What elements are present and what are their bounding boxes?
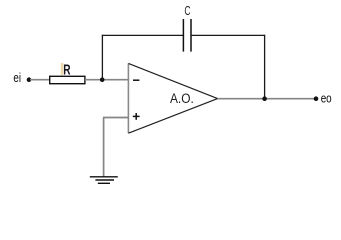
node eo terminal dot — [314, 96, 319, 101]
wire feedback left vertical segment — [101, 35, 103, 80]
wire ei to resistor R — [30, 79, 50, 81]
svg-text:eo: eo — [321, 91, 332, 106]
capacitor C plates — [183, 19, 191, 52]
ground symbol — [90, 177, 118, 184]
svg-text:A.O.: A.O. — [170, 91, 194, 106]
resistor R body — [50, 76, 85, 83]
op-amp U1 triangle — [128, 63, 217, 133]
svg-text:R: R — [63, 62, 70, 79]
wire feedback top right horizontal from capacitor — [191, 34, 265, 36]
wire resistor R to inverting input — [85, 79, 128, 81]
svg-text:C: C — [184, 4, 190, 18]
svg-text:ei: ei — [13, 71, 21, 85]
op-amp non-inverting input plus sign — [133, 113, 140, 120]
wire feedback right vertical down to output — [264, 35, 266, 99]
wire non-inverting input horizontal — [103, 117, 128, 119]
highlight bar beside R label — [61, 63, 64, 75]
node B junction dot (feedback / output) — [262, 96, 267, 101]
op-amp inverting input minus sign — [133, 79, 139, 81]
wire non-inverting input down to ground — [103, 118, 105, 177]
wire op-amp output to eo — [218, 98, 316, 100]
node ei terminal dot — [27, 77, 32, 82]
wire feedback top left horizontal to capacitor — [102, 34, 183, 36]
node A junction dot (R / C / minus input) — [100, 77, 105, 82]
